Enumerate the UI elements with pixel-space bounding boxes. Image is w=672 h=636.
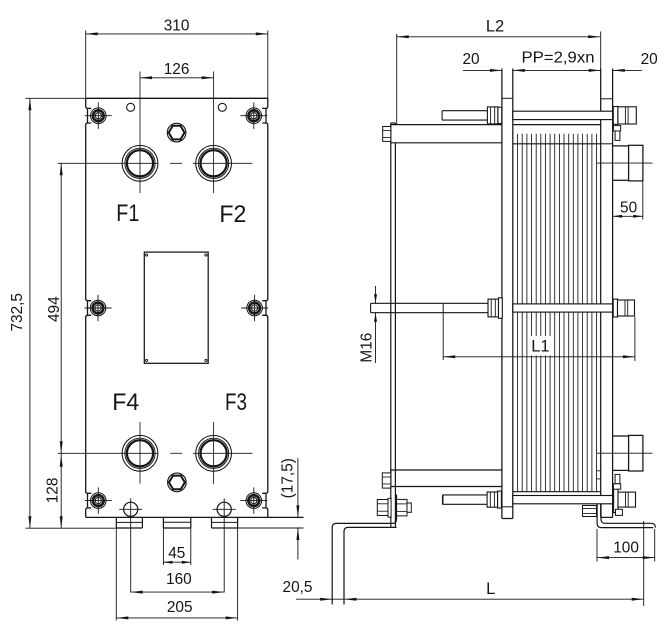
svg-text:160: 160	[166, 571, 192, 588]
corner bolt bottom-right	[240, 487, 267, 513]
dimension L2 frame length	[397, 18, 601, 125]
label F2	[219, 201, 246, 228]
stud below lower nozzle	[613, 474, 620, 489]
svg-text:205: 205	[167, 599, 193, 616]
upper nozzle connection	[597, 145, 653, 181]
port F4 opening	[122, 435, 158, 471]
dimension 128 lower port height	[45, 453, 63, 528]
dimension 160 tab hole spacing	[131, 571, 225, 594]
label F4	[112, 389, 139, 416]
guide bar edge in gap	[597, 471, 601, 479]
corner bolt top-right	[240, 103, 267, 129]
stud above upper nozzle	[613, 126, 620, 141]
port F3 opening	[196, 435, 232, 471]
carrying bar bolt	[383, 127, 391, 142]
upper carrying bar	[391, 125, 601, 143]
side bolt mid-right	[241, 295, 268, 321]
lower guide bar	[391, 470, 502, 487]
dimension L1 tie bolt length	[443, 313, 635, 361]
front foot bolt	[583, 506, 597, 517]
heat exchanger front plate outline	[86, 98, 304, 517]
center bottom stub	[163, 517, 190, 528]
rear support column	[391, 123, 396, 527]
hex vent port top	[167, 123, 186, 142]
dimension 100 front foot	[597, 529, 655, 562]
plate pack	[513, 134, 601, 492]
fixed frame plate	[502, 69, 513, 519]
small hole right	[218, 103, 226, 111]
movable pressure plate	[601, 32, 613, 518]
lower tie bolt	[443, 487, 636, 513]
svg-text:732,5: 732,5	[9, 293, 26, 332]
dimension 126 port spacing	[140, 61, 214, 79]
dimension 20 pressure plate	[613, 51, 658, 72]
dimension 20 fixed plate	[462, 51, 501, 72]
carrying bar line through pressure plate	[601, 143, 613, 145]
svg-text:45: 45	[168, 545, 185, 562]
small hole left	[127, 103, 135, 111]
hex vent port bottom	[168, 473, 187, 492]
corner bolt bottom-left	[85, 487, 112, 513]
svg-text:50: 50	[620, 199, 637, 216]
svg-text:(17,5): (17,5)	[280, 458, 297, 498]
svg-text:L1: L1	[531, 337, 549, 355]
plate right edge with bolt notches	[262, 98, 268, 517]
svg-text:20: 20	[462, 51, 479, 68]
guide bar bolt	[382, 473, 391, 488]
rear foot bolt	[377, 498, 411, 517]
tab guide hole left	[119, 498, 142, 592]
port F2 opening	[196, 145, 232, 181]
svg-text:L: L	[486, 580, 495, 598]
rear support foot	[332, 495, 396, 605]
label F3	[225, 389, 247, 416]
svg-text:310: 310	[164, 17, 190, 34]
dimension 494 port vertical spacing	[46, 163, 63, 453]
port F1 opening	[122, 145, 158, 181]
small nut below lower right tie bolt nut	[616, 509, 623, 515]
svg-text:F3: F3	[225, 389, 247, 416]
svg-text:494: 494	[46, 296, 63, 322]
plate left edge with bolt notches	[86, 98, 92, 517]
tab guide hole right	[213, 498, 236, 592]
bottom mounting tabs	[116, 517, 237, 528]
svg-text:128: 128	[45, 478, 62, 504]
svg-text:PP=2,9xn: PP=2,9xn	[522, 50, 595, 67]
dimension 205 tab outer spacing	[116, 528, 237, 621]
middle tie bolt M16	[371, 298, 635, 319]
svg-text:F2: F2	[219, 201, 246, 228]
lower nozzle connection	[597, 435, 653, 471]
corner bolt top-left	[85, 103, 112, 129]
dimension M16 tie bolt thread	[358, 286, 377, 363]
dimension 732,5 overall height	[9, 98, 116, 528]
svg-text:F1: F1	[116, 200, 139, 227]
svg-text:20: 20	[641, 51, 658, 68]
dimension L overall and 20,5 foot	[283, 521, 644, 606]
dimension 310 top width	[86, 17, 268, 98]
svg-text:126: 126	[164, 61, 190, 78]
svg-text:20,5: 20,5	[283, 579, 313, 596]
nameplate with corner rivets	[144, 252, 208, 363]
dimension 45 stub width	[163, 528, 190, 565]
port centerlines	[58, 72, 253, 484]
svg-text:M16: M16	[358, 333, 375, 363]
dimension 50 nozzle stand-off	[613, 180, 643, 219]
label F1	[116, 200, 139, 227]
side bolt mid-left	[85, 295, 112, 321]
svg-text:100: 100	[613, 539, 639, 556]
svg-text:L2: L2	[486, 18, 504, 36]
upper tie bolt	[442, 107, 636, 125]
dimension PP plate pack	[513, 50, 601, 72]
front support foot	[597, 504, 655, 528]
svg-text:F4: F4	[112, 389, 139, 416]
dimension (17,5) tab height	[238, 458, 304, 560]
